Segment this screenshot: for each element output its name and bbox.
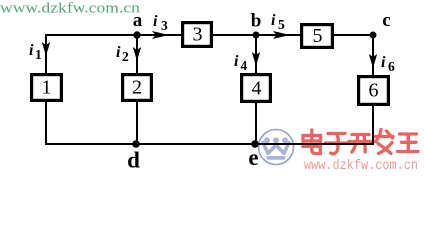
svg-text:5: 5 — [278, 17, 285, 32]
element 2 — [123, 75, 152, 101]
svg-text:www.dzkfw.com.cn: www.dzkfw.com.cn — [0, 1, 141, 17]
element 5 — [302, 25, 333, 48]
watermark text fa — [375, 130, 394, 154]
wire node b down to element 4 — [255, 35, 257, 73]
wire element 2 down to node d — [136, 102, 138, 144]
label node d — [127, 148, 140, 173]
svg-text:1: 1 — [42, 77, 52, 99]
wire bottom horizontal d-e — [45, 143, 374, 145]
node c — [370, 32, 377, 39]
wire element 1 down to bottom — [45, 102, 47, 144]
current arrow i1 — [42, 42, 50, 56]
watermark red url bottom-right — [304, 159, 418, 174]
wire element 4 down to node e — [255, 103, 257, 144]
node e — [251, 140, 259, 148]
svg-text:i: i — [234, 53, 239, 70]
svg-text:i: i — [116, 44, 121, 61]
current arrow i2 — [133, 47, 141, 61]
svg-text:3: 3 — [193, 24, 203, 46]
svg-text:3: 3 — [161, 18, 168, 33]
current arrow i6 — [369, 54, 377, 68]
label node c — [382, 10, 390, 31]
svg-text:www.dzkfw.com.cn: www.dzkfw.com.cn — [304, 159, 418, 174]
node d — [132, 140, 140, 148]
svg-text:6: 6 — [369, 80, 379, 102]
svg-text:i: i — [153, 13, 158, 30]
svg-text:d: d — [127, 148, 140, 173]
wire node a down to element 2 — [136, 35, 138, 73]
label current i5 — [271, 12, 285, 32]
svg-text:i: i — [381, 54, 386, 71]
wire node c down to element 6 — [372, 34, 374, 75]
svg-text:a: a — [133, 10, 143, 31]
svg-text:i: i — [29, 42, 34, 59]
label current i1 — [29, 42, 42, 62]
watermark text wang — [398, 134, 419, 152]
svg-text:e: e — [248, 145, 258, 170]
label node b — [251, 11, 262, 32]
label current i4 — [234, 53, 248, 73]
element 1 — [32, 75, 62, 101]
wire left branch down to element 1 — [45, 34, 47, 73]
svg-text:c: c — [382, 10, 390, 31]
current arrow i4 — [252, 52, 260, 66]
label current i3 — [153, 13, 168, 33]
element 3 — [183, 23, 212, 47]
svg-text:2: 2 — [122, 49, 129, 64]
svg-text:5: 5 — [313, 25, 323, 47]
label node a — [133, 10, 143, 31]
svg-text:4: 4 — [241, 58, 248, 73]
watermark text zi — [326, 134, 348, 154]
label node e — [248, 145, 258, 170]
wire element 6 down to bottom — [372, 106, 374, 144]
svg-text:b: b — [251, 11, 262, 32]
svg-text:6: 6 — [388, 59, 395, 74]
watermark text kai — [349, 135, 371, 153]
watermark logo W circle — [259, 130, 294, 165]
node b — [253, 32, 260, 39]
current arrow i3 — [152, 31, 169, 39]
wire top horizontal a-b-c — [45, 34, 373, 36]
current arrow i5 — [273, 31, 290, 39]
svg-text:2: 2 — [132, 77, 142, 99]
svg-text:1: 1 — [35, 47, 42, 62]
label current i6 — [381, 54, 395, 74]
svg-text:4: 4 — [252, 78, 262, 100]
label current i2 — [116, 44, 129, 64]
svg-text:i: i — [271, 12, 276, 29]
watermark green url top-left — [0, 1, 141, 17]
node a — [133, 31, 140, 38]
watermark text dian — [303, 130, 321, 154]
element 6 — [359, 77, 389, 105]
element 4 — [242, 75, 271, 102]
